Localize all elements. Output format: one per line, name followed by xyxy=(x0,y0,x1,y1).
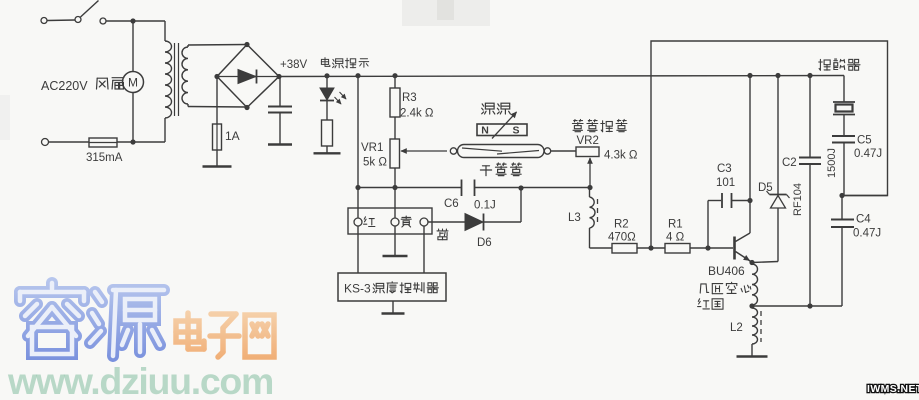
ground under 1A xyxy=(216,150,218,166)
svg-text:D6: D6 xyxy=(477,237,492,249)
ground under KS-3 xyxy=(392,301,394,313)
VR1 wiper arrow xyxy=(401,149,407,154)
label 蓝 xyxy=(437,229,448,240)
label 雾量调整 xyxy=(572,120,583,132)
transistor Q1 BU406 xyxy=(733,237,736,260)
inductor L2 xyxy=(752,308,758,344)
svg-text:C3: C3 xyxy=(717,163,732,175)
air-core coil xyxy=(752,264,758,305)
svg-text:1500J: 1500J xyxy=(826,148,838,178)
svg-text:N: N xyxy=(481,125,489,137)
fan motor M xyxy=(132,21,134,72)
wire xyxy=(117,141,165,143)
svg-text:4 Ω: 4 Ω xyxy=(666,232,685,244)
svg-text:BU406: BU406 xyxy=(708,264,745,278)
magnet N S xyxy=(477,124,527,136)
svg-text:R2: R2 xyxy=(614,219,629,231)
svg-text:C5: C5 xyxy=(857,135,872,147)
ground under LED xyxy=(314,152,341,154)
svg-text:+38V: +38V xyxy=(280,59,308,71)
svg-text:R1: R1 xyxy=(668,219,683,231)
bridge rectifier xyxy=(217,45,279,108)
inductor L3 xyxy=(589,188,591,198)
fuse 315mA xyxy=(49,141,90,143)
svg-text:RF104: RF104 xyxy=(792,183,804,216)
wire red lead xyxy=(357,226,359,273)
switch S1 xyxy=(41,18,47,24)
svg-text:1A: 1A xyxy=(225,129,240,143)
label 风扇 xyxy=(97,78,109,89)
float arrow xyxy=(511,112,517,118)
svg-text:S: S xyxy=(512,125,519,137)
label 浮漂 xyxy=(482,103,495,114)
bridge diode xyxy=(219,76,277,78)
node base junction xyxy=(705,245,710,250)
KS-3 controller box xyxy=(338,273,446,301)
svg-text:D5: D5 xyxy=(758,182,773,194)
wire collector column xyxy=(747,73,752,78)
transformer secondary xyxy=(182,47,188,104)
wire xyxy=(106,20,165,22)
capacitor C5 xyxy=(832,135,855,137)
node bridge corners xyxy=(244,42,249,47)
label 换能器 xyxy=(819,59,830,70)
LED D-power xyxy=(324,73,329,78)
resistor R2 xyxy=(612,244,637,254)
VR2 wiper arrow xyxy=(588,158,593,164)
capacitor C4 xyxy=(841,196,843,220)
svg-text:KS-3: KS-3 xyxy=(344,282,371,296)
wire blue lead xyxy=(423,226,425,273)
svg-text:5k Ω: 5k Ω xyxy=(363,157,387,169)
ground under L2 xyxy=(751,344,753,356)
svg-text:www.dziuu.com: www.dziuu.com xyxy=(7,360,273,400)
svg-text:0.1J: 0.1J xyxy=(474,200,496,212)
ground under filter cap xyxy=(268,143,292,145)
connector block xyxy=(348,208,432,234)
fuse 1A xyxy=(216,77,218,125)
transformer T1 primary xyxy=(164,21,166,41)
capacitor C2 xyxy=(807,73,812,78)
resistor R1 xyxy=(665,244,690,254)
reed switch 干簧管 xyxy=(450,148,456,154)
potentiometer VR1 xyxy=(394,117,396,139)
label 红 xyxy=(364,217,375,227)
svg-text:0.47J: 0.47J xyxy=(854,148,882,160)
label 干簧管 xyxy=(480,166,491,176)
svg-text:C4: C4 xyxy=(856,214,871,226)
label 黄 xyxy=(401,216,411,227)
diode D6 xyxy=(428,221,465,223)
svg-text:M: M xyxy=(128,76,138,90)
filter capacitor xyxy=(279,77,281,107)
svg-text:315mA: 315mA xyxy=(86,152,123,164)
wire to red terminal xyxy=(357,76,359,219)
transducer crystal xyxy=(843,76,845,102)
node top junction xyxy=(130,18,135,23)
wire reed to VR2 xyxy=(551,150,576,152)
svg-text:0.47J: 0.47J xyxy=(853,228,881,240)
diode D5 xyxy=(775,73,780,78)
svg-text:101: 101 xyxy=(716,177,735,189)
watermark 电子网 xyxy=(176,313,274,357)
svg-text:AC220V: AC220V xyxy=(41,79,88,93)
svg-text:R3: R3 xyxy=(402,92,417,104)
label 电源指示 xyxy=(321,58,329,67)
capacitor C3 xyxy=(707,201,709,249)
bottom terminal xyxy=(42,139,49,146)
node R2/R1 junction xyxy=(648,245,653,250)
transformer core xyxy=(174,43,176,116)
resistor R3 xyxy=(355,73,360,78)
svg-text:2.4k Ω: 2.4k Ω xyxy=(400,108,434,120)
svg-text:C2: C2 xyxy=(782,157,797,169)
capacitor C6 xyxy=(461,180,463,197)
ground under yellow xyxy=(394,226,396,256)
wire VR1 bottom xyxy=(394,168,396,188)
node bottom junction xyxy=(130,139,135,144)
wire feedback rail xyxy=(651,41,888,248)
label 几匝空心线圈 xyxy=(700,284,709,293)
wire emitter bottom line xyxy=(752,305,842,307)
svg-text:4.3k Ω: 4.3k Ω xyxy=(604,150,638,162)
svg-text:IWMS.NET: IWMS.NET xyxy=(867,383,919,395)
svg-text:L3: L3 xyxy=(568,212,581,224)
wire to outer rail xyxy=(844,195,888,197)
wire C6 line xyxy=(355,185,360,190)
svg-text:470Ω: 470Ω xyxy=(608,232,636,244)
wire +38V rail xyxy=(279,76,844,77)
svg-text:L2: L2 xyxy=(730,322,743,334)
resistor of LED xyxy=(326,101,328,121)
svg-text:VR1: VR1 xyxy=(361,142,383,154)
svg-text:C6: C6 xyxy=(444,198,459,210)
svg-text:VR2: VR2 xyxy=(577,135,599,147)
